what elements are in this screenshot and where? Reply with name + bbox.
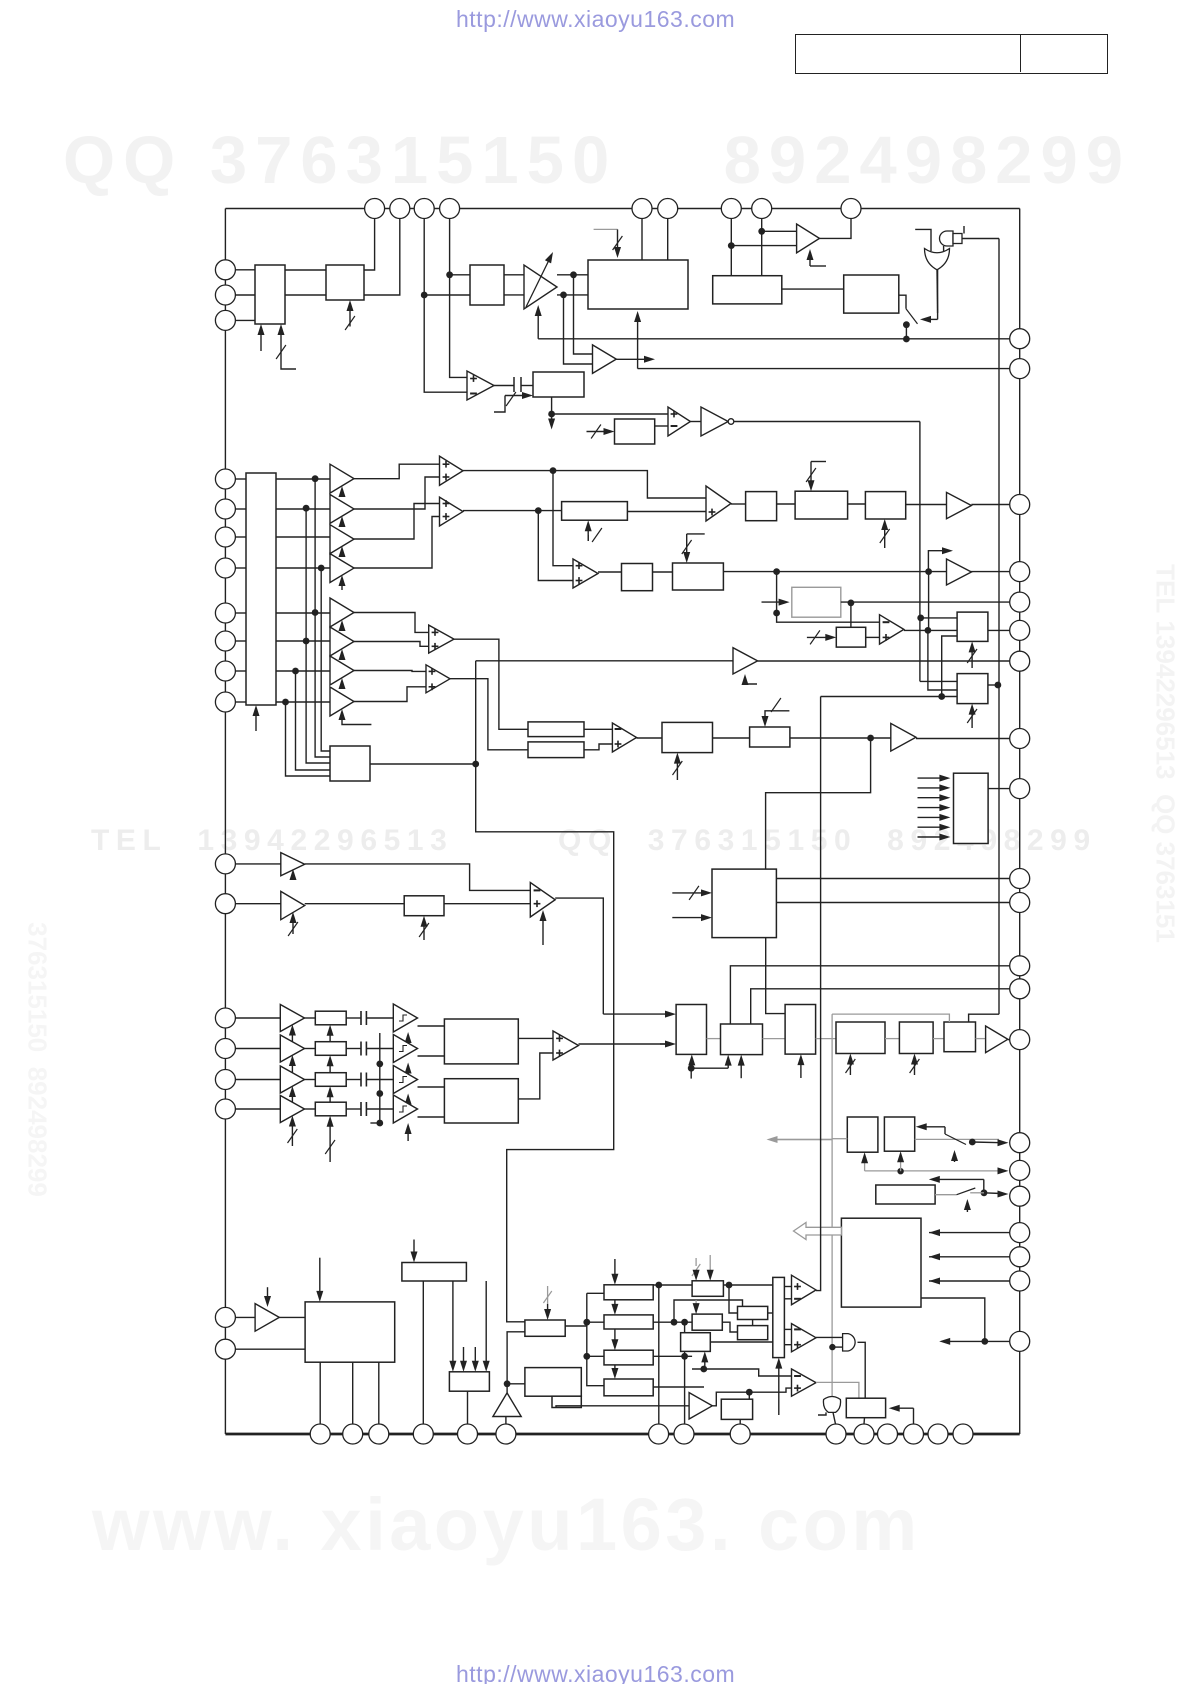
resistor block RB1 [562, 502, 628, 521]
wire G7 to pin B10 [833, 1412, 836, 1424]
gray wire G3 right outward [915, 1138, 999, 1140]
node N35 on bus V999 [995, 682, 1002, 689]
block A7 hold [533, 372, 584, 397]
wire N23 right into block H6 left [507, 1383, 525, 1385]
block B7 [957, 612, 988, 641]
wire N5 to AMP1 input [731, 245, 796, 247]
block G2 reg1 [847, 1117, 878, 1152]
wire N28 up-over to block K3 top [674, 1300, 743, 1322]
variable gain amp VGA1 [524, 265, 557, 309]
bus V999 vertical [998, 239, 1000, 1015]
wire RB2a to CMP6 minus [584, 728, 612, 730]
wire G5 right-bottom elbow down [921, 1298, 985, 1341]
channel2 amp [280, 1035, 304, 1062]
pin left L10 [215, 661, 235, 681]
wire N2 to block A3 upper input [450, 274, 470, 276]
wire pin T5 into A4 top [641, 219, 643, 261]
wire K7 bottom to pin B11 [863, 1418, 866, 1424]
arrow into AMP10 top [267, 1287, 269, 1301]
wire K2 out to K4 [722, 1322, 737, 1332]
buffer BUF3 [330, 525, 354, 554]
wire amp AMP11 out elbow [712, 1388, 791, 1406]
gray wire bus to G2 left [832, 1138, 847, 1140]
arrow into CMP7 bottom [542, 916, 544, 945]
arrow into AMP5 bottom [744, 680, 746, 683]
block K1 DSP [692, 1281, 723, 1297]
wire K6 to pin B9 [739, 1419, 741, 1424]
gray slash arrow into K1 top [695, 1258, 697, 1266]
chain gray link F2-F3 [763, 1038, 786, 1040]
resistor block RB2a [528, 722, 584, 737]
block H1 system controller [305, 1302, 395, 1362]
arrow2 into F2 bottom [740, 1061, 742, 1079]
wire pin T4 down to node N2 [449, 219, 451, 275]
pin right R20 [1010, 1271, 1030, 1291]
pin left L6 [215, 527, 235, 547]
url watermark top [456, 6, 735, 33]
gray block GB1 [792, 587, 841, 617]
wire schmitt2 to block E1 [418, 1055, 445, 1057]
wire K5 out to bar [710, 1341, 773, 1343]
block K2 DSP [692, 1314, 722, 1330]
wire CMP6 to block B9 [637, 737, 662, 739]
wire CMP4 to block B4 [598, 571, 622, 573]
BAR1 to CMP8 stubs [784, 1286, 791, 1288]
arrow into H1 top [319, 1258, 321, 1296]
channel4 resistor [315, 1102, 346, 1116]
switch SW3 arrow [966, 1205, 968, 1212]
hollow gray bus arrow [794, 1223, 842, 1240]
wire selector row 6 [235, 640, 246, 642]
chain block F5 [899, 1022, 933, 1054]
block G5 big control [841, 1218, 921, 1307]
wire pin T8 down [761, 219, 763, 276]
wire BUF7 to SUM6 [354, 670, 426, 673]
pin right R14 [1010, 1030, 1030, 1050]
wire S1 output to block K1 [653, 1284, 692, 1286]
wire L14 to channel1 amp [235, 1017, 280, 1019]
wire H2 to pin B4 [422, 1281, 424, 1424]
slash-arrow into A7 left lower [505, 395, 527, 397]
bell gate G7 [823, 1397, 840, 1413]
wire N14 bus down into B11 [928, 630, 957, 690]
pin bottom B1 [310, 1424, 330, 1444]
watermark mid row [91, 824, 1097, 858]
AMP2 output arrow [616, 358, 649, 360]
node N25 [583, 1319, 590, 1326]
amp AMP3 row1 out [947, 492, 972, 518]
comparator CMP4 dual-plus [573, 559, 598, 588]
wire D1 to pin R9 [988, 788, 1010, 790]
pin right R18 [1010, 1223, 1030, 1243]
wire selector row 8 [235, 701, 246, 703]
block A5 divider [713, 276, 782, 304]
node N1 [421, 292, 428, 299]
wire schmitt1 to block E1 [418, 1025, 445, 1027]
node N23 above H4 [504, 1380, 511, 1387]
node N21 [981, 1189, 988, 1196]
capacitor C1 [513, 377, 515, 392]
arrow into K5 bottom [704, 1357, 706, 1369]
node N7 [548, 411, 555, 418]
chain gray link F3-F4 [816, 1038, 836, 1040]
block H5 [525, 1320, 565, 1336]
feedback arrow into AMP1 bottom [810, 265, 826, 267]
stack resistor S2 [604, 1315, 653, 1329]
wire S3 output across [653, 1355, 692, 1357]
gain arrow into VGA1 from bus Y339 [537, 311, 539, 339]
arrow from N22 leftward [945, 1340, 985, 1342]
pin right R19 [1010, 1247, 1030, 1267]
pin bottom B4 [413, 1424, 433, 1444]
block A4 main processor [588, 260, 688, 309]
amp AMP1 top [797, 224, 820, 253]
pin left L15 [215, 1039, 235, 1059]
block B8 left matrix [330, 746, 370, 781]
comparator CMP6 [612, 723, 636, 752]
pin top T5 [632, 199, 652, 219]
BAR1 to CMP9 stubs [784, 1328, 791, 1330]
pin right R5 [1010, 592, 1030, 612]
buffer BUF1 [330, 464, 354, 493]
node N5 on T7 line [728, 242, 735, 249]
amp AMP10 [255, 1304, 279, 1332]
node N18 below F1 [688, 1065, 695, 1072]
arrowhead into pin R16 [998, 1167, 1009, 1174]
pin bottom B11 [854, 1424, 874, 1444]
wire G6 output down to block K7 top [858, 1342, 866, 1398]
block H2 horizontal [402, 1263, 467, 1282]
node N27 on S1 out [655, 1282, 662, 1289]
block K5 [681, 1333, 711, 1352]
comparator CMP7 [530, 883, 555, 918]
wire B9 to block B10 [713, 737, 750, 739]
wire pin T7 down [730, 219, 732, 276]
wire selector row 2 [235, 508, 246, 510]
wire BUF8 to SUM6 [354, 687, 426, 702]
arrow from N19 into G3 bottom [900, 1157, 902, 1171]
wire E2 to SUM7 [518, 1053, 553, 1099]
bus N27 down to pin B7 [658, 1285, 660, 1424]
node N20 switch common [969, 1139, 976, 1146]
watermark right vertical [1150, 504, 1181, 1004]
wire N31 down to block K3 [729, 1285, 738, 1313]
pin bottom B6 [496, 1424, 516, 1444]
stack vertical V587 [587, 1293, 604, 1385]
block SEL input selector [246, 473, 276, 705]
node N2 [446, 271, 453, 278]
slash-arrow into B11 bottom [971, 710, 973, 728]
wire N26 to stack3 [587, 1355, 604, 1357]
wire C1 out to pin R11 [776, 902, 1009, 904]
block B2 [795, 491, 848, 519]
pin left L14 [215, 1008, 235, 1028]
extra tap node on v1 [312, 609, 319, 616]
arrow into F3 bottom [800, 1060, 802, 1078]
gray arrow into K2 top [695, 1300, 697, 1307]
bus N29 down to pin B8 [684, 1322, 686, 1424]
gray line above chain from gray bus into F6 top [832, 1014, 949, 1022]
wire CMP3 to block B1 [731, 503, 746, 505]
wire A7 bottom to node N7 [551, 397, 553, 414]
wire N2 to comparator CMP1 plus [450, 275, 467, 378]
amp AMP7 [281, 853, 305, 876]
wire N25 to stack2 [587, 1321, 604, 1323]
wire schmitt4 to block E2 [418, 1116, 445, 1118]
selector tap verticals into B8 [318, 565, 325, 572]
wire H2 down to H3 arrows [452, 1281, 454, 1366]
pin right R1 [1010, 329, 1030, 349]
bus V999 elbow into chain F6 top [969, 1014, 999, 1022]
channel1 amp [280, 1005, 304, 1032]
selector control arrow [255, 711, 257, 731]
inverter INV1 [701, 407, 728, 436]
wire N32 step to CMP9 minus [692, 1369, 792, 1376]
gray bus continues to bell gate [831, 1347, 833, 1398]
wire SUM2 output to resistor RB1 [463, 510, 562, 512]
buffer BUF7 [330, 656, 354, 685]
channel1 schmitt buffer [393, 1004, 417, 1032]
wire CMP9 out to AND gate [816, 1336, 843, 1338]
wire AMP10 to H1 [279, 1316, 305, 1318]
gray slash-arrow into A4 top [594, 228, 618, 230]
wire N10 down to gray block GB1 region [777, 572, 880, 623]
wire N3 down to AMP2 input [574, 275, 593, 354]
node N11 row2 [925, 568, 932, 575]
chain link F6-AMP9 [976, 1038, 986, 1040]
block K3 [738, 1306, 768, 1319]
pin right R15 [1010, 1133, 1030, 1153]
wire BUF1 to SUM1 [354, 464, 440, 479]
wire Y368 elbow up into A4 bottom [637, 317, 639, 369]
block G3 reg2 [884, 1117, 914, 1151]
wire pin T6 into A4 top [667, 219, 669, 261]
wire N13 down into block B6 top [850, 603, 852, 627]
block K4 [738, 1326, 768, 1340]
hanging down arrow below N7 [551, 414, 553, 424]
node N6 on T8 line [758, 228, 765, 235]
wire SUM1 output to comparator CMP3 upper [463, 471, 706, 498]
node N14 on CMP5 out [925, 627, 932, 634]
pin left L19 [215, 1339, 235, 1359]
slash-arrow into F4 bottom [849, 1060, 851, 1076]
gray arrow2 into K1 top [709, 1255, 711, 1272]
wire H6 tab to AMP11 [556, 1406, 689, 1408]
pin right R6 [1010, 620, 1030, 640]
node N26 [583, 1353, 590, 1360]
pin top T1 [365, 199, 385, 219]
wire CMP7 output to chain block C-in [555, 898, 603, 1014]
wire K3-K4 link [752, 1320, 754, 1326]
chain gray link F1-F2 [707, 1038, 721, 1040]
channel3 resistor [315, 1073, 346, 1087]
wire BUF6 to SUM5 [354, 642, 429, 647]
pin right R16 [1010, 1160, 1030, 1180]
pin left L16 [215, 1070, 235, 1090]
wire L16 to channel3 amp [235, 1079, 280, 1081]
wire stack1 left elbow [587, 1292, 604, 1294]
wire RB1 to CMP3 plus [627, 511, 706, 513]
wire CMP8 output up bus V821 [816, 697, 821, 1291]
pin top T7 [721, 199, 741, 219]
channel3 amp [280, 1066, 304, 1093]
wire pin R21 to N22 [985, 1340, 1010, 1342]
chain gray link F4-F5 [885, 1038, 899, 1040]
arrow into K7 right from pin B13 [913, 1408, 915, 1424]
wire INV1 output to bus V920 [734, 421, 920, 423]
pin right R13 [1010, 979, 1030, 999]
switch SW2 arrow [954, 1156, 956, 1162]
wire AMP8 to resistor RB3 [305, 903, 405, 905]
wire B11 output to bus V999 node [988, 684, 998, 686]
wire into G1 left input [915, 229, 931, 251]
switch SW2 [944, 1127, 946, 1134]
block C1 processor mid [712, 869, 776, 938]
node N16 [472, 761, 479, 768]
resistor block RB3 [404, 896, 444, 916]
pin bottom B8 [674, 1424, 694, 1444]
amp AMP4 row2 out [947, 559, 972, 585]
bus from N17 down into block C1 top [766, 738, 871, 869]
net row Y661 to pin R7 [476, 660, 733, 662]
block B10 [750, 727, 790, 747]
wire L13 to AMP8 [235, 903, 280, 905]
wire N8 down to comparator CMP4 plus1 [553, 471, 573, 566]
wire RB3 to CMP7 plus [444, 903, 530, 905]
pin top T6 [658, 199, 678, 219]
wire A6 to switch SW1 [899, 295, 906, 309]
wire N7 to comparator CMP2 plus [552, 413, 668, 415]
comparator CMP3 row1 [706, 486, 731, 521]
slash-arrow into A8 [587, 431, 609, 433]
net row pin R12 down into chain F2 top [730, 966, 1009, 1024]
wire A1 to A2 [285, 269, 326, 271]
chain block F3 [785, 1005, 816, 1055]
wire N1 to comparator CMP1 minus [424, 295, 467, 392]
pin top T4 [440, 199, 460, 219]
wire H4 base to pin B6 [505, 1417, 507, 1425]
wire bus V821 top to blocks B7/B11 [821, 696, 958, 698]
slash-arrow into RB1 bottom [587, 526, 589, 541]
channel2 resistor [315, 1042, 346, 1056]
wire CMP5 output to block B7 [904, 629, 957, 631]
slash-arrow into C1 left upper [672, 892, 706, 894]
block A3 [470, 265, 504, 305]
buffer BUF8 [330, 687, 354, 716]
wire N21 to pin R17 [984, 1192, 1001, 1195]
wire SUM7 output arrow into chain C-chain [579, 1043, 670, 1045]
wire selector row 3 [235, 536, 246, 538]
pin left L18 [215, 1307, 235, 1327]
summing amp SUM7 [553, 1031, 579, 1060]
wire selector row 7 [235, 670, 246, 672]
wire BUF4 to SUM2 [354, 517, 440, 569]
wire N16 down-right long net to DSP [476, 764, 614, 1322]
amp AMP6 row Y738 [891, 723, 916, 751]
gray bus vertical V832 [831, 1014, 833, 1347]
wire H4 apex to N23 [506, 1384, 508, 1393]
pin right R4 [1010, 562, 1030, 582]
chain block F2 [721, 1024, 763, 1055]
node N30 crossing S3 out [681, 1353, 688, 1360]
wire V475 from Y661 down to node N16 [475, 661, 477, 764]
wire AMP1 out to pin T9 [820, 219, 852, 239]
wire B10 to AMP6 with node N17 [790, 737, 891, 739]
amp AMP9 chain out [986, 1026, 1008, 1053]
stack resistor S1 [604, 1285, 653, 1300]
comparator CMP5 [880, 615, 904, 644]
wire BUF3 to SUM2 [354, 504, 440, 540]
triangle H4 up-facing [493, 1393, 521, 1417]
block A8 [615, 419, 655, 444]
wire bus V928 from N11 to N14 [928, 572, 930, 631]
pin left L3 [215, 310, 235, 330]
slash-arrow into B3 bottom [884, 525, 886, 548]
summing amp SUM6 [426, 665, 450, 693]
gray slash-arrow into H5 top [547, 1286, 549, 1304]
pin bottom B12 [878, 1424, 898, 1444]
node N12 [773, 610, 780, 617]
control arrow into F1 bottom [691, 1060, 693, 1068]
wire K3 to bus bar [768, 1312, 773, 1314]
block E1 decoder upper [444, 1019, 518, 1064]
pin bottom B13 [904, 1424, 924, 1444]
wire N4 down to AMP2 input [564, 295, 593, 364]
buffer BUF5 [330, 598, 354, 627]
resistor block RB2b [528, 742, 584, 758]
pin top T2 [390, 199, 410, 219]
bus V920 vertical [919, 422, 921, 682]
pin bottom B9 [730, 1424, 750, 1444]
slash-arrow into B5 top [686, 534, 688, 557]
channel1 capacitor [346, 1017, 361, 1019]
block B1 [746, 492, 777, 521]
wire pin T3 down to node N1 [423, 219, 425, 296]
comparator CMP9 [792, 1324, 817, 1352]
wire H5 output to node N24 [565, 1325, 587, 1327]
cap bus vertical with nodes [379, 1033, 381, 1123]
net Y368 row to pin R2 [638, 368, 1010, 370]
wire B2 to B3 [848, 503, 866, 505]
summing amp SUM2 [440, 497, 464, 526]
wire B7 to pin R6 [988, 629, 1010, 631]
wire C1 out to pin R10 [776, 878, 1009, 880]
slash-arrow into B2 top [810, 462, 812, 486]
pin bottom B5 [458, 1424, 478, 1444]
wire G1 right input from TG1 [943, 246, 945, 252]
wire L1-L3 to A1 [235, 269, 255, 271]
chain block F6 [944, 1022, 976, 1052]
arrow from pin R20 into G5 [929, 1280, 1010, 1282]
switch SW1 blade [906, 309, 918, 324]
wire B4 to B5 [653, 571, 673, 573]
slash-arrow into RB3 bottom [423, 922, 425, 940]
block H6 [525, 1368, 581, 1397]
pin bottom B10 [826, 1424, 846, 1444]
pin left L2 [215, 285, 235, 305]
comparator CMP10 [792, 1369, 817, 1396]
wire GB1 output row to pin R5 [841, 601, 1010, 603]
BUF8 arrow tail [342, 722, 371, 725]
node N15 bus V920 tap [917, 615, 924, 622]
summing amp SUM1 [440, 456, 464, 485]
wire B8 output to node N16 [370, 763, 476, 765]
block B9 [662, 722, 713, 752]
AND gate G6 [843, 1334, 856, 1351]
wire A5 to block A6 [782, 288, 844, 290]
node N32 [700, 1366, 707, 1373]
gray wire CMP10 out down to K7 top [816, 1382, 859, 1398]
